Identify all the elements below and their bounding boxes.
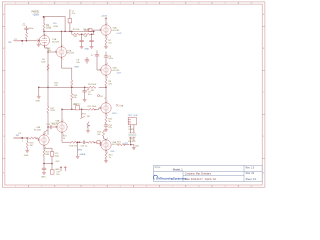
svg-text:NFB: NFB: [75, 66, 80, 68]
border ticks right: [262, 27, 265, 159]
triode V4A: [57, 122, 67, 132]
svg-text:NFB: NFB: [78, 149, 83, 151]
svg-text:8: 8: [63, 59, 64, 61]
pot RV1: [81, 109, 83, 111]
RC filter R5: [71, 31, 73, 34]
svg-text:GND: GND: [85, 49, 90, 51]
ground V2A cathode: [105, 45, 107, 47]
wire grid V4B: [23, 137, 29, 139]
svg-text:1: 1: [107, 101, 108, 103]
capacitor C16: [42, 168, 46, 169]
ground cathode V3B: [104, 161, 107, 163]
wire cathode V4B: [43, 145, 45, 150]
ground cathode V3A: [104, 130, 107, 132]
ground grid leak: [26, 150, 29, 152]
svg-text:ECC83: ECC83: [52, 41, 60, 43]
svg-text:1: 1: [63, 120, 64, 122]
coupling cap C5 grid V2A: [84, 29, 88, 31]
svg-text:OUT-: OUT-: [110, 151, 115, 153]
wires cathode chain: [44, 148, 52, 170]
svg-text:DIYRecordingEquipment: DIYRecordingEquipment: [156, 176, 187, 180]
ground filter C4: [90, 47, 93, 49]
svg-text:6: 6: [107, 63, 108, 65]
junction: [79, 141, 81, 143]
svg-text:8: 8: [45, 147, 46, 149]
input pin P1: [21, 40, 23, 42]
svg-text:OUT+: OUT+: [112, 113, 118, 115]
rail B wire: [38, 86, 106, 88]
output connector J1: [128, 117, 136, 124]
wire plate V3A to rail B: [105, 87, 107, 103]
sheet inner border: [5, 4, 262, 185]
electrolytic C17 box: [50, 170, 54, 174]
tube pin numbers: [38, 23, 109, 154]
wire grid V1A: [23, 40, 37, 42]
svg-text:1W: 1W: [91, 90, 94, 92]
svg-text:6: 6: [107, 138, 108, 140]
resistor R20 cathode V4B: [43, 150, 45, 156]
resistor R8 cathode V2B: [105, 75, 107, 79]
resistor R14 cathode V3B: [105, 150, 107, 153]
svg-text:1: 1: [46, 34, 47, 36]
wire to V1B grid: [48, 51, 56, 53]
svg-text:10k:600: 10k:600: [128, 141, 136, 143]
capacitor C13 series: [83, 141, 84, 144]
triode V1A: [39, 35, 49, 45]
svg-text:470R: 470R: [53, 26, 58, 28]
cap C9 rail B decoupling: [84, 87, 86, 89]
junction: [43, 163, 45, 165]
svg-text:+210V: +210V: [101, 15, 108, 17]
triode V3A: [101, 103, 111, 113]
svg-text:R11 500k: R11 500k: [88, 106, 98, 108]
power port circle 0V: [97, 95, 99, 97]
resistor R16 grid leak 1M: [26, 138, 28, 142]
plate feed V4B resistor R17: [47, 87, 49, 106]
svg-text:Company: Max Christians: Company: Max Christians: [185, 173, 212, 176]
svg-text:2W: 2W: [84, 36, 87, 38]
svg-text:3: 3: [107, 115, 108, 117]
capacitor C3 filter: [81, 33, 83, 35]
wire: [26, 26, 28, 41]
svg-text:Date: 2014-02-17: Date: 2014-02-17: [185, 178, 204, 181]
wire down to ground: [133, 145, 135, 148]
junction: [105, 87, 107, 89]
svg-text:2: 2: [22, 141, 23, 143]
svg-text:Size: A3: Size: A3: [246, 172, 255, 175]
junction: [51, 163, 53, 165]
svg-text:C10 1u: C10 1u: [74, 104, 82, 106]
svg-text:Rev: 1.0: Rev: 1.0: [246, 168, 255, 170]
wire plate V4B: [44, 130, 48, 135]
company logo: [153, 175, 187, 180]
ground rail B left: [38, 87, 40, 96]
grid feed cap V2B: [96, 51, 98, 55]
junction: [26, 137, 28, 139]
resistor R10a: [71, 80, 73, 86]
resistor R2 grid network: [25, 33, 27, 39]
transformer TR1: [129, 132, 135, 135]
resistor R13 plate feed V3B: [102, 130, 104, 136]
wire B+ top link: [43, 16, 45, 18]
wire plate V4A to rail C: [61, 109, 63, 122]
resistor R9 on rail B: [88, 86, 96, 88]
svg-text:1: 1: [107, 23, 108, 25]
ground cathode network: [76, 156, 79, 158]
resistor R18 cathode network: [70, 141, 78, 143]
wire to ground: [77, 142, 79, 156]
junction coupling node: [47, 126, 49, 128]
svg-text:R18 47k: R18 47k: [69, 146, 78, 148]
svg-text:TITLE:: TITLE:: [154, 167, 161, 169]
svg-text:GND: GND: [35, 101, 40, 103]
wire filter: [80, 31, 94, 34]
junction: [47, 87, 49, 89]
input pin P2: [22, 137, 24, 139]
svg-text:3: 3: [46, 47, 47, 49]
svg-text:C13 1u: C13 1u: [80, 146, 88, 148]
rail C wire: [62, 108, 88, 110]
svg-text:1: 1: [22, 43, 23, 45]
svg-text:8: 8: [107, 152, 108, 154]
svg-text:Sheet: 1/1: Sheet: 1/1: [246, 178, 257, 181]
junction: [130, 144, 132, 146]
capacitor C4 filter: [91, 33, 93, 35]
wire cathode V4A: [62, 132, 70, 142]
svg-text:Imprim: A4: Imprim: A4: [205, 178, 217, 181]
svg-text:-OUT: -OUT: [116, 73, 122, 75]
heater pins: [60, 166, 62, 169]
svg-text:R5 10k: R5 10k: [73, 29, 81, 31]
svg-text:1M: 1M: [87, 116, 90, 118]
wire cathode V1A: [45, 46, 49, 88]
resistor R4 cathode chain: [47, 64, 49, 70]
triode V4B: [39, 135, 49, 145]
triode V2B: [101, 65, 111, 75]
resistor R15 grid stopper: [29, 137, 37, 139]
wire: [43, 19, 45, 24]
junction: [61, 31, 63, 33]
svg-text:3: 3: [107, 37, 108, 39]
svg-text:3: 3: [63, 134, 64, 136]
tube pin dots: [38, 24, 107, 152]
svg-text:ECC83: ECC83: [34, 129, 42, 131]
svg-text:100k: 100k: [46, 28, 52, 30]
wires to transformer: [131, 125, 134, 133]
svg-text:6: 6: [63, 45, 64, 47]
svg-text:+OUT: +OUT: [116, 33, 122, 35]
resistor R11 on rail C: [88, 108, 96, 110]
resistor R21 output: [118, 144, 126, 146]
capacitor C11 cathode V3A: [105, 123, 107, 124]
ground filter C3: [80, 47, 83, 49]
triode V3B: [101, 140, 111, 150]
svg-text:ECC83: ECC83: [67, 53, 75, 55]
resistor R12 cathode V3A: [105, 113, 107, 117]
svg-text:R9 100R: R9 100R: [88, 84, 97, 86]
power entry C2: [69, 10, 71, 19]
svg-text:8: 8: [107, 77, 108, 79]
resistor R1 plate load V1A: [43, 24, 45, 30]
resistor R7 cathode V2A: [105, 35, 107, 38]
border ticks left: [2, 27, 5, 159]
ground grid: [38, 43, 40, 44]
ground C16: [42, 172, 45, 174]
ground C9: [83, 100, 86, 102]
svg-text:ECC82: ECC82: [113, 30, 121, 32]
RC filter R6: [83, 33, 91, 35]
grid stopper cross: [37, 40, 40, 43]
svg-text:2W: 2W: [74, 36, 77, 38]
svg-text:6: 6: [45, 133, 46, 135]
svg-text:1M: 1M: [30, 145, 33, 147]
triode V1B: [56, 47, 66, 57]
sheet outer border: [2, 2, 265, 187]
coupling cap C10 on rail C: [76, 106, 80, 110]
coupling cap C6: [105, 52, 107, 56]
border ticks bottom: [29, 185, 239, 187]
wire: [43, 30, 45, 36]
svg-text:+250V: +250V: [33, 15, 40, 17]
svg-text:V3A: V3A: [119, 105, 124, 108]
rail A wire: [44, 30, 94, 32]
svg-text:OUT_XLR: OUT_XLR: [128, 115, 138, 117]
title block outline: [154, 165, 263, 181]
triode V2A: [101, 25, 111, 35]
wire plate V1B to rail: [61, 31, 63, 46]
svg-text:GNDA: GNDA: [79, 153, 86, 156]
bypass cap C15 box: [50, 152, 54, 157]
border ticks top: [29, 2, 239, 4]
wire: [105, 20, 107, 25]
junction: [47, 51, 49, 53]
svg-text:GND: GND: [24, 155, 29, 157]
svg-text:PWR01: PWR01: [32, 12, 41, 14]
svg-text:GND: GND: [41, 177, 46, 179]
junction grid node: [26, 40, 28, 42]
title block texts: [154, 167, 256, 181]
cap C14 box: [97, 141, 100, 144]
svg-text:Model_1: Model_1: [173, 168, 184, 172]
capacitor C8 node: [85, 60, 89, 61]
junction rail A tap: [43, 31, 45, 33]
svg-text:ECC82: ECC82: [113, 70, 121, 72]
coupling cap C12 to V4A grid: [48, 126, 50, 128]
wire cathode V1B: [62, 57, 72, 80]
resistor R19: [88, 141, 96, 143]
svg-text:XLR3: XLR3: [128, 129, 134, 131]
